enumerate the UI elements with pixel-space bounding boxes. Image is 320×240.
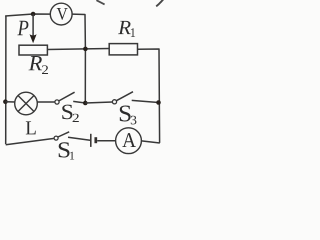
node: junction dot middle line x resistor row	[83, 47, 88, 52]
wire: ammeter to bottom-right corner	[141, 141, 159, 143]
wire: left wire to lamp	[5, 101, 15, 103]
label S2_S	[62, 105, 72, 120]
battery: long plate	[90, 134, 92, 147]
wire: junction to switch S3	[85, 102, 112, 103]
label R1_R	[118, 21, 131, 34]
wire: voltmeter right to corner and middle vertical wire down	[72, 14, 85, 103]
node: junction dot on top wire	[31, 12, 36, 17]
stray mark: cropped stroke remnant top right	[156, 0, 163, 6]
wire: top wire from left corner to voltmeter	[5, 14, 51, 16]
label A	[122, 133, 136, 147]
switch S1	[54, 136, 58, 140]
wire: bottom-left corner to switch S1	[6, 138, 55, 144]
switch S2	[55, 100, 59, 104]
rheostat R2 rect	[19, 45, 47, 55]
label S3_S	[120, 106, 131, 122]
switch S3	[112, 100, 116, 104]
label S3_3	[131, 116, 137, 125]
wire: left vertical wire	[5, 16, 7, 145]
label R1_1	[131, 28, 135, 37]
stray mark: cropped stroke remnant top middle	[96, 0, 104, 4]
label S2_2	[73, 114, 79, 122]
label P	[17, 21, 28, 35]
resistor R1 rect	[109, 44, 137, 55]
node: junction dot right wire x switch row	[156, 100, 161, 105]
label S1_S	[59, 142, 70, 157]
node: junction dot left wire x lamp row	[3, 99, 8, 104]
label R2_R	[29, 56, 43, 70]
wire: rheostat right to R1	[47, 49, 109, 50]
wire: R1 right to corner and right vertical wire down	[138, 49, 160, 143]
label R2_2	[42, 65, 48, 74]
wiper arrow P of rheostat	[32, 14, 34, 36]
ammeter A	[116, 128, 142, 154]
wire: battery to ammeter	[97, 140, 116, 142]
label V	[57, 8, 68, 20]
label L	[26, 121, 36, 134]
battery: short thick plate	[94, 137, 97, 143]
node: junction dot middle line x switch row	[83, 101, 88, 106]
label S1_1	[70, 152, 74, 160]
wire: lamp to switch S2	[37, 101, 55, 103]
lamp L circle with X	[15, 92, 38, 115]
voltmeter V	[50, 3, 72, 25]
